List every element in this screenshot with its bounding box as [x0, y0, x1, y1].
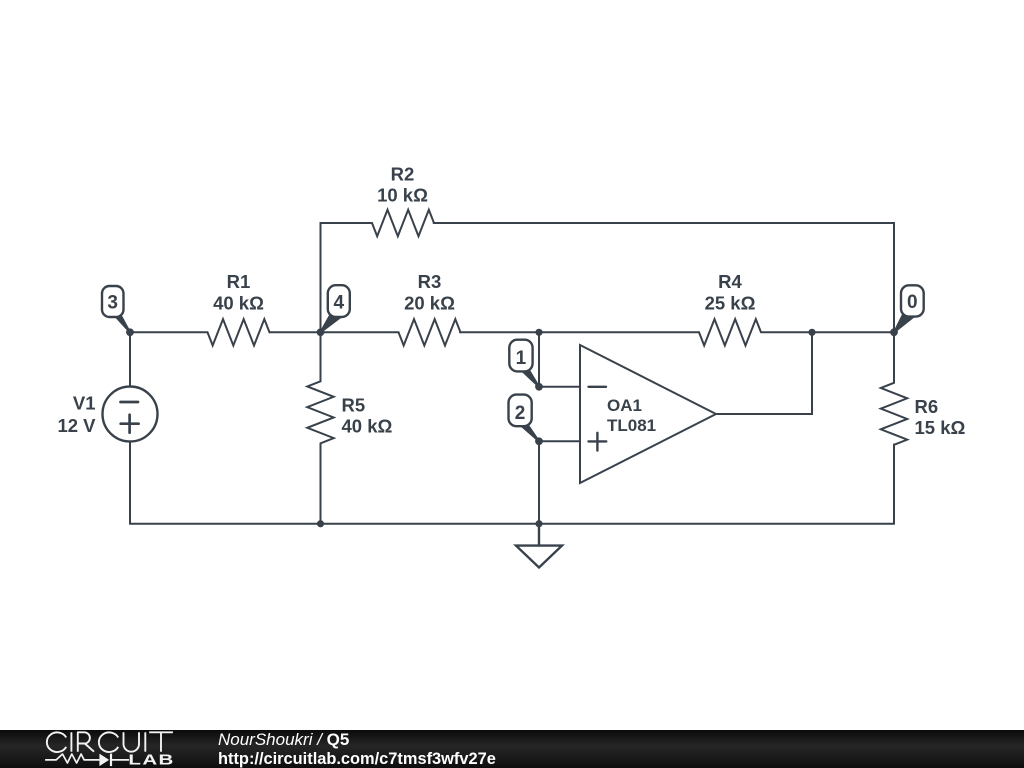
- resistor R4: [699, 271, 761, 346]
- svg-text:TL081: TL081: [607, 416, 656, 435]
- node 4 label: [321, 285, 350, 332]
- svg-text:0: 0: [907, 292, 918, 313]
- wire R5 to bottom rail: [320, 444, 322, 524]
- node junction dot rail ground: [535, 520, 542, 527]
- wire non-inverting input to ground rail: [539, 441, 580, 523]
- node A junction dot node3: [126, 328, 134, 336]
- node junction dot opamp branch: [535, 329, 542, 336]
- wire top feedback loop left rise: [321, 223, 373, 332]
- wire node3 down to V1: [129, 332, 131, 386]
- svg-text:V1: V1: [73, 393, 96, 414]
- resistor R2: [372, 164, 434, 237]
- logo diode: [99, 754, 109, 767]
- node 3 label: [102, 286, 130, 332]
- svg-text:R3: R3: [418, 271, 442, 292]
- wire V1 to bottom rail: [129, 442, 131, 524]
- ground: [516, 524, 562, 568]
- footer url: [218, 750, 496, 768]
- svg-text:OA1: OA1: [607, 396, 642, 415]
- node junction dot node0: [890, 328, 898, 336]
- wire junction down to inverting input: [539, 332, 580, 387]
- node 2 label: [509, 395, 540, 442]
- node 0 label: [894, 285, 924, 332]
- letter I: [70, 732, 72, 751]
- op-amp OA1: [580, 345, 716, 483]
- wire R4 to node0: [762, 331, 894, 333]
- svg-text:2: 2: [515, 403, 526, 424]
- letter C2: [99, 732, 118, 752]
- CircuitLab logo: [0, 729, 200, 768]
- wire bottom rail: [130, 523, 894, 525]
- logo resistor squiggle: [45, 754, 99, 763]
- letter U: [124, 732, 140, 751]
- wire top feedback loop right: [434, 223, 894, 332]
- svg-text:20 kΩ: 20 kΩ: [404, 293, 455, 314]
- letter I2: [144, 732, 146, 751]
- svg-text:15 kΩ: 15 kΩ: [915, 417, 966, 438]
- letter C: [47, 732, 66, 752]
- wire R1 to R3: [270, 331, 399, 333]
- svg-text:R1: R1: [227, 271, 251, 292]
- svg-text:R4: R4: [718, 271, 742, 292]
- svg-text:12 V: 12 V: [57, 415, 96, 436]
- node junction dot inverting: [535, 383, 543, 391]
- wire main horizontal node3 to R1: [130, 331, 208, 333]
- svg-text:4: 4: [334, 293, 345, 314]
- letter T: [149, 732, 173, 751]
- svg-text:10 kΩ: 10 kΩ: [377, 185, 428, 206]
- resistor R5: [307, 381, 392, 443]
- svg-text:R5: R5: [342, 395, 366, 416]
- svg-text:40 kΩ: 40 kΩ: [342, 416, 393, 437]
- svg-text:40 kΩ: 40 kΩ: [213, 293, 264, 314]
- resistor R3: [399, 271, 461, 346]
- resistor R1: [208, 271, 270, 346]
- resistor R6: [881, 332, 966, 523]
- node junction dot output: [808, 329, 815, 336]
- svg-text:25 kΩ: 25 kΩ: [705, 293, 756, 314]
- wire R3 to R4: [460, 331, 699, 333]
- svg-text:R2: R2: [391, 164, 415, 185]
- voltage source V1: [57, 387, 157, 442]
- footer author/title: [218, 730, 349, 750]
- svg-text:LAB: LAB: [128, 751, 174, 768]
- node junction dot non-inverting: [535, 437, 543, 445]
- svg-text:3: 3: [107, 293, 118, 314]
- node junction dot node4: [317, 328, 325, 336]
- svg-text:1: 1: [516, 348, 527, 369]
- svg-text:R6: R6: [915, 396, 939, 417]
- letter R: [78, 732, 94, 751]
- footer bar: [0, 730, 1024, 768]
- node junction dot rail R5: [317, 520, 324, 527]
- wire node4 down to R5: [320, 332, 322, 381]
- node 1 label: [509, 340, 539, 387]
- wire op-amp output: [716, 332, 812, 414]
